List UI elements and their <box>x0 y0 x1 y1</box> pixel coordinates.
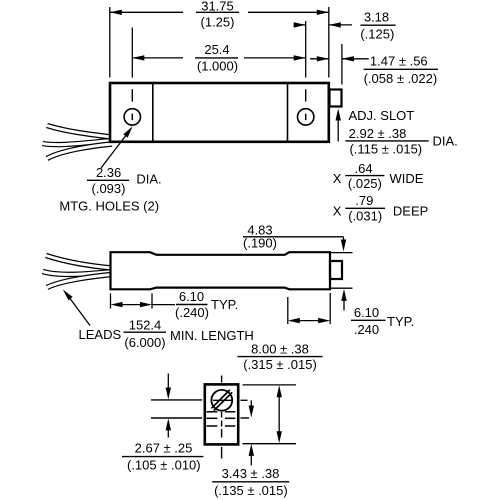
dimension 1.47 screw projection <box>310 54 438 87</box>
svg-text:DIA.: DIA. <box>136 172 161 187</box>
dimension 8.00 arrows <box>243 385 297 444</box>
left mounting hole <box>124 109 140 125</box>
svg-text:(.115 ± .015): (.115 ± .015) <box>349 141 422 156</box>
dimension 3.18 right cap <box>294 10 396 42</box>
extension line left hole center <box>131 28 133 78</box>
label 3.43 <box>212 466 289 498</box>
svg-text:DIA.: DIA. <box>433 134 458 149</box>
svg-text:31.75: 31.75 <box>201 0 234 13</box>
end view circle horizontal centerline <box>213 399 232 401</box>
top view right cap divider line <box>287 84 289 141</box>
svg-text:X: X <box>333 203 342 218</box>
svg-text:(.058 ± .022): (.058 ± .022) <box>364 71 438 86</box>
svg-text:(.190): (.190) <box>243 236 277 251</box>
leads leader arrow <box>63 290 90 326</box>
extension line left edge <box>109 7 111 78</box>
top view left cap divider line <box>152 84 154 141</box>
svg-text:2.36: 2.36 <box>96 165 121 180</box>
svg-text:(.031): (.031) <box>348 208 382 223</box>
dimension 3.43 arrows <box>249 400 254 465</box>
svg-text:WIDE: WIDE <box>390 171 424 186</box>
svg-text:.64: .64 <box>355 161 373 176</box>
svg-text:MTG. HOLES (2): MTG. HOLES (2) <box>59 198 159 213</box>
adj slot pointer arrow <box>336 109 341 142</box>
svg-text:.79: .79 <box>355 193 373 208</box>
svg-text:(.025): (.025) <box>348 176 382 191</box>
top view adjustment screw protrusion <box>330 90 342 107</box>
svg-text:6.10: 6.10 <box>179 289 204 304</box>
end view screwdriver slot <box>211 390 232 411</box>
svg-text:6.10: 6.10 <box>354 305 379 320</box>
label x .79 deep <box>333 193 429 223</box>
side view body outline <box>111 252 331 289</box>
side view screw protrusion <box>330 261 342 279</box>
dimension 2.67 slot depth extension lines <box>151 374 202 438</box>
extension line right edge <box>328 7 330 78</box>
svg-text:2.67 ± .25: 2.67 ± .25 <box>135 441 193 456</box>
svg-text:MIN. LENGTH: MIN. LENGTH <box>170 328 254 343</box>
label adj slot <box>349 108 415 123</box>
svg-text:(.125): (.125) <box>360 27 394 42</box>
end view vertical centerline <box>221 376 223 459</box>
leader arrow to left mounting hole <box>101 126 133 168</box>
svg-text:DEEP: DEEP <box>393 203 428 218</box>
svg-text:(6.000): (6.000) <box>124 335 165 350</box>
end view internal dashed lines <box>207 412 236 426</box>
svg-text:ADJ. SLOT: ADJ. SLOT <box>349 108 415 123</box>
side view leads (3 wires) <box>43 256 113 288</box>
svg-text:(.315 ± .015): (.315 ± .015) <box>243 357 317 372</box>
svg-text:25.4: 25.4 <box>204 42 229 57</box>
svg-text:(1.25): (1.25) <box>201 15 235 30</box>
label 8.00 height <box>238 342 323 372</box>
dimension 6.10 right cap width <box>288 293 414 337</box>
label 2.36 dia mtg holes <box>59 165 161 213</box>
dimension 31.75 overall width <box>110 0 329 30</box>
label 2.92 dia <box>345 126 457 156</box>
extension line screw tip <box>341 44 343 85</box>
top view body outline <box>110 83 329 142</box>
svg-text:2.92 ± .38: 2.92 ± .38 <box>349 126 407 141</box>
svg-text:152.4: 152.4 <box>129 318 162 333</box>
svg-text:(.093): (.093) <box>92 181 126 196</box>
svg-text:3.43 ± .38: 3.43 ± .38 <box>222 466 280 481</box>
svg-text:X: X <box>333 171 342 186</box>
dimension 4.83 body height <box>243 222 353 310</box>
right mounting hole <box>298 109 314 125</box>
svg-text:.240: .240 <box>354 322 379 337</box>
left hole center dash <box>131 89 133 101</box>
label x .64 wide <box>333 161 424 191</box>
dimension 25.4 hole spacing <box>132 42 305 74</box>
svg-text:(1.000): (1.000) <box>197 59 238 74</box>
label 2.67 <box>122 441 203 473</box>
svg-text:LEADS: LEADS <box>79 327 122 342</box>
svg-text:3.18: 3.18 <box>364 10 389 25</box>
right hole center dash <box>305 89 307 101</box>
svg-text:(.240): (.240) <box>175 305 209 320</box>
label leads min length <box>79 318 254 351</box>
svg-text:(.105 ± .010): (.105 ± .010) <box>127 458 201 473</box>
svg-text:8.00 ± .38: 8.00 ± .38 <box>251 342 309 357</box>
svg-text:TYP.: TYP. <box>387 314 414 329</box>
end view body outline <box>205 384 238 444</box>
extension line right hole center <box>305 21 307 78</box>
svg-text:1.47 ± .56: 1.47 ± .56 <box>370 54 428 69</box>
svg-text:(.135 ± .015): (.135 ± .015) <box>214 483 288 498</box>
end view horizontal center dashes <box>241 400 250 418</box>
top view leads (3 wires) <box>43 126 113 159</box>
svg-text:TYP.: TYP. <box>211 297 238 312</box>
dimension 6.10 left cap width <box>111 289 239 320</box>
end view adjustment screw circle <box>211 390 232 411</box>
